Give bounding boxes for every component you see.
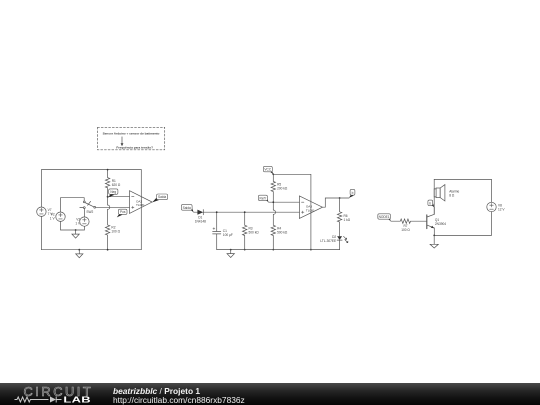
- svg-text:Pos: Pos: [120, 210, 126, 214]
- wire bottom right: [434, 212, 491, 236]
- ground (middle circuit): [230, 250, 232, 254]
- wire minus input: [108, 196, 130, 198]
- wire inner loop bottom-right: [61, 221, 85, 230]
- speaker Alarme: [436, 188, 440, 198]
- wire speaker to top rail: [434, 179, 436, 197]
- node R3 top junction: [244, 211, 246, 213]
- node VCC junction: [272, 173, 274, 175]
- node R4 bottom junction: [272, 249, 274, 251]
- voltage source V2: [56, 212, 65, 221]
- switch SW2: [83, 201, 85, 203]
- svg-text:8 Ω: 8 Ω: [449, 193, 455, 197]
- flag Saida (left): [152, 198, 159, 202]
- svg-text:Neg: Neg: [110, 190, 116, 194]
- wire V3 to switch: [83, 208, 85, 217]
- svg-text:Sensor Arduino + sensor de bat: Sensor Arduino + sensor de batimento: [103, 132, 160, 136]
- ground (inner loop): [75, 230, 77, 234]
- node ground junction (inner loop): [75, 229, 77, 231]
- annotation arrow: [121, 137, 123, 144]
- svg-text:12 V: 12 V: [498, 208, 505, 212]
- wire main middle: [203, 211, 299, 213]
- flag b (collector): [430, 202, 435, 207]
- svg-text:Frequência para tensão?: Frequência para tensão?: [116, 146, 153, 150]
- ground (right circuit): [433, 235, 435, 244]
- ground (left circuit): [78, 250, 80, 254]
- node Neg junction: [107, 196, 109, 198]
- op-amp OA3: [299, 196, 322, 219]
- flag b (middle output): [349, 194, 354, 198]
- svg-text:b: b: [352, 191, 354, 195]
- flag VCC: [269, 169, 274, 175]
- op-amp OA2: [130, 191, 153, 214]
- wire ref to minus: [269, 201, 300, 203]
- resistor R1: [105, 170, 109, 197]
- wire VCC top to opamp power: [273, 174, 311, 249]
- wire output: [323, 198, 350, 207]
- wire hop on R1R2 chain: [108, 205, 110, 209]
- svg-text:b: b: [429, 202, 431, 206]
- node C1 top junction: [216, 211, 218, 213]
- wire hop on R4 chain: [273, 210, 275, 214]
- resistor R5: [271, 174, 275, 202]
- svg-text:620 Ω: 620 Ω: [112, 183, 121, 187]
- svg-text:1 V: 1 V: [50, 217, 56, 221]
- svg-text:200 kΩ: 200 kΩ: [277, 186, 288, 190]
- flag Ref: [264, 197, 269, 203]
- wire inner loop top-left: [61, 198, 85, 212]
- node emitter junction: [433, 235, 435, 237]
- svg-text:LTL-307EE: LTL-307EE: [320, 239, 336, 243]
- svg-text:TL081: TL081: [306, 208, 315, 212]
- resistor R3: [243, 212, 247, 249]
- svg-text:100 Ω: 100 Ω: [111, 229, 120, 233]
- node op-amp V- rail junction: [310, 249, 312, 251]
- svg-text:TL081: TL081: [136, 203, 145, 207]
- svg-text:VCC: VCC: [264, 168, 271, 172]
- annotation dashed box: [98, 127, 165, 150]
- transistor Q1: [426, 215, 428, 229]
- voltage source V3: [80, 217, 89, 226]
- resistor R6: [337, 198, 341, 236]
- resistor R7: [391, 219, 427, 223]
- svg-text:100 µF: 100 µF: [223, 233, 233, 237]
- resistor R2: [107, 197, 109, 205]
- voltage source V8: [487, 202, 496, 211]
- svg-text:Saida: Saida: [158, 195, 166, 199]
- capacitor C1: [216, 212, 218, 231]
- resistor R4: [272, 202, 274, 210]
- wire plus input: [96, 206, 130, 208]
- flag Pos: [117, 213, 123, 217]
- svg-text:Ref?: Ref?: [260, 196, 267, 200]
- wire top right: [434, 179, 491, 202]
- node R1 top: [107, 169, 109, 171]
- svg-text:NODE1: NODE1: [379, 215, 390, 219]
- svg-text:100 Ω: 100 Ω: [401, 228, 410, 232]
- node ground junction (outer bottom): [78, 249, 80, 251]
- svg-text:1N4148: 1N4148: [195, 220, 206, 224]
- flag Neg: [108, 193, 114, 197]
- wire collector to speaker: [434, 189, 436, 214]
- svg-text:500 kΩ: 500 kΩ: [277, 230, 288, 234]
- node R3 bottom junction: [244, 249, 246, 251]
- node ground junction (middle rail): [230, 249, 232, 251]
- wire flag to diode: [194, 211, 198, 213]
- svg-text:LAB: LAB: [63, 396, 91, 405]
- wire opamp power rail: [140, 170, 142, 250]
- node R2 bottom: [107, 249, 109, 251]
- wire outer bottom-left (left circuit): [41, 216, 141, 249]
- wire bottom rail: [217, 249, 340, 251]
- voltage source V7: [37, 207, 46, 216]
- node output junction: [339, 197, 341, 199]
- node Ref junction: [272, 201, 274, 203]
- wire outer top (left circuit): [41, 170, 141, 207]
- flag NODE1: [386, 216, 391, 222]
- svg-text:500 kΩ: 500 kΩ: [249, 230, 260, 234]
- svg-text:2N3904: 2N3904: [435, 222, 446, 226]
- LED D2: [337, 236, 342, 240]
- footer bar: [0, 383, 540, 405]
- svg-text:1 kΩ: 1 kΩ: [344, 218, 351, 222]
- diode D1: [197, 210, 203, 215]
- flag Saida (middle): [189, 207, 194, 213]
- svg-text:SW2: SW2: [86, 210, 93, 214]
- svg-text:Saida: Saida: [183, 206, 191, 210]
